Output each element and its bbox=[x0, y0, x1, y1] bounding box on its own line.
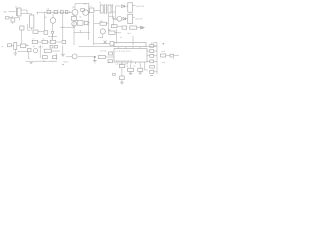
diode D1 bbox=[122, 5, 125, 8]
wire bbox=[154, 71, 157, 73]
right vertical wire bbox=[156, 42, 158, 74]
wire bbox=[113, 18, 117, 20]
svg-text:v+: v+ bbox=[162, 43, 165, 45]
capacitor C5 bbox=[61, 10, 64, 13]
IC pin stubs bottom bbox=[122, 62, 145, 65]
svg-text:comm: comm bbox=[63, 61, 69, 63]
svg-text:tp2: tp2 bbox=[128, 32, 132, 35]
capacitor C21 bbox=[55, 45, 58, 48]
transistor Q6 bbox=[72, 21, 77, 26]
wire bbox=[38, 41, 61, 43]
wire bbox=[115, 6, 117, 18]
svg-text:T1: T1 bbox=[99, 2, 102, 4]
capacitor C10 bbox=[44, 31, 48, 34]
transformer T1 primary bbox=[100, 5, 103, 13]
wire bbox=[121, 80, 123, 82]
wire bbox=[26, 45, 29, 47]
wire bbox=[112, 4, 114, 19]
right pin resistor Rd bbox=[150, 60, 154, 63]
capacitor C18 bbox=[138, 68, 143, 71]
resistor R4 bbox=[111, 25, 117, 28]
resistor R12 bbox=[44, 49, 51, 52]
wire bbox=[93, 14, 95, 45]
wire bbox=[73, 14, 75, 45]
ground bbox=[120, 82, 123, 84]
capacitor C14 bbox=[42, 56, 47, 59]
wire bbox=[62, 14, 64, 28]
resistor R1 bbox=[20, 26, 24, 30]
wire bbox=[147, 50, 157, 52]
svg-text:18 17 16 15 14 13: 18 17 16 15 14 13 bbox=[115, 60, 133, 62]
bottom bus wire bbox=[94, 43, 111, 45]
resistor R8 bbox=[42, 40, 47, 43]
IC U1 bbox=[114, 49, 147, 62]
inductor L3 bbox=[72, 16, 77, 20]
long top wire bbox=[79, 45, 114, 47]
wire bbox=[111, 11, 116, 13]
resistor R13 bbox=[52, 56, 56, 59]
wire bbox=[74, 32, 90, 34]
transformer T1 core bbox=[105, 4, 107, 14]
wire bbox=[94, 23, 108, 25]
svg-text:U1 reg: U1 reg bbox=[100, 50, 107, 53]
wire bbox=[174, 55, 179, 57]
capacitor C11 bbox=[62, 40, 66, 43]
resistor R3 bbox=[100, 22, 107, 25]
svg-text:a: a bbox=[89, 22, 91, 24]
resistor R15 bbox=[161, 54, 166, 57]
svg-text:t3: t3 bbox=[134, 65, 137, 68]
wire bbox=[14, 50, 16, 53]
resistor R2 bbox=[81, 8, 85, 11]
fuse F1 bbox=[30, 15, 34, 28]
wire bbox=[18, 52, 31, 59]
wire stub bbox=[155, 41, 158, 43]
svg-text:vz: vz bbox=[33, 46, 35, 48]
resistor R6 bbox=[109, 31, 115, 34]
resistor R9 bbox=[50, 40, 55, 43]
capacitor C16 bbox=[170, 54, 174, 57]
wire bbox=[62, 45, 64, 53]
resistor R17 bbox=[128, 68, 134, 71]
transistor Q4 bbox=[33, 48, 37, 52]
svg-text:fb: fb bbox=[80, 16, 83, 18]
wire bbox=[121, 68, 123, 76]
wire bbox=[111, 4, 113, 6]
mark bbox=[150, 75, 153, 77]
IC pin stubs top bbox=[119, 47, 140, 49]
wire bbox=[125, 5, 128, 7]
transformer T1 secondary bbox=[108, 5, 111, 13]
wire bbox=[115, 32, 121, 34]
wire bbox=[78, 56, 95, 58]
ground bbox=[14, 53, 18, 55]
switch S1 bbox=[6, 17, 10, 20]
wire bbox=[12, 22, 14, 24]
wire bbox=[56, 53, 58, 60]
capacitor C12 bbox=[84, 21, 88, 25]
diode D7 bbox=[28, 48, 31, 51]
wire bbox=[126, 18, 128, 20]
resistor bank box bbox=[33, 30, 38, 33]
relay RL1 bbox=[128, 3, 133, 12]
junction bbox=[69, 12, 70, 13]
junction bbox=[163, 43, 164, 44]
right pin resistor Ra bbox=[150, 44, 154, 47]
wire bbox=[52, 14, 54, 32]
diode D4 bbox=[51, 32, 54, 35]
svg-text:in: in bbox=[2, 46, 4, 48]
wire bbox=[166, 55, 170, 57]
wire bbox=[94, 58, 96, 61]
ground bbox=[61, 54, 65, 56]
wire bbox=[60, 26, 75, 28]
wire stub bbox=[79, 30, 81, 33]
wire bbox=[51, 50, 60, 52]
wire bbox=[137, 27, 145, 29]
wire bbox=[38, 12, 45, 31]
svg-text:out1 12V: out1 12V bbox=[136, 5, 145, 8]
right pin resistor Rc bbox=[150, 54, 154, 57]
diode D6 bbox=[104, 41, 107, 44]
ground bbox=[93, 61, 97, 63]
capacitor C1 bbox=[11, 18, 15, 22]
svg-text:K1: K1 bbox=[84, 4, 87, 6]
ground left bbox=[30, 62, 33, 63]
wire bbox=[145, 64, 148, 70]
connector J1 bbox=[15, 8, 17, 16]
wire bbox=[154, 45, 157, 47]
wire bbox=[9, 16, 13, 18]
wire bbox=[147, 60, 157, 62]
small mark bbox=[113, 73, 116, 75]
wire bbox=[120, 36, 122, 38]
tick bbox=[62, 63, 64, 65]
svg-text:R3: R3 bbox=[100, 21, 104, 23]
node mark bbox=[28, 30, 31, 32]
junction bbox=[52, 36, 53, 37]
svg-text:k2: k2 bbox=[45, 17, 48, 19]
wire bbox=[11, 44, 14, 46]
wire bbox=[139, 64, 141, 73]
transistor Q3 bbox=[100, 29, 105, 34]
right pin resistor Rb bbox=[150, 50, 154, 53]
wire bbox=[21, 43, 23, 44]
wire bbox=[9, 11, 16, 13]
svg-text:adj: adj bbox=[162, 62, 165, 64]
svg-text:vref: vref bbox=[162, 50, 166, 53]
resistor R5 bbox=[130, 26, 137, 29]
junction bbox=[62, 27, 63, 28]
inductor L2 bbox=[89, 8, 94, 13]
wire bbox=[62, 27, 64, 40]
diode D3 bbox=[141, 26, 144, 29]
wire bbox=[88, 4, 90, 40]
right pin resistor Rf bbox=[150, 70, 154, 73]
meter M1 bbox=[117, 16, 122, 21]
wire bbox=[31, 14, 33, 15]
ground bbox=[129, 73, 132, 74]
transistor Q2 bbox=[83, 10, 89, 16]
wire bbox=[116, 29, 118, 44]
resistor R14 bbox=[98, 55, 105, 58]
relay RL2 bbox=[128, 14, 133, 23]
capacitor C19 bbox=[108, 60, 113, 63]
capacitor C15 bbox=[108, 52, 112, 55]
tick bbox=[50, 60, 54, 62]
svg-text:c9: c9 bbox=[126, 66, 129, 68]
bottom-left bus wire bbox=[26, 60, 58, 62]
capacitor C3 bbox=[47, 10, 51, 13]
wire bbox=[105, 56, 114, 58]
svg-text:Q4 tr: Q4 tr bbox=[39, 46, 44, 49]
diode D5 bbox=[8, 44, 12, 47]
ground bbox=[139, 73, 142, 74]
svg-text:o: o bbox=[173, 58, 175, 60]
wire bbox=[27, 24, 29, 30]
svg-text:1 2 3 4 5 6 7 8 9: 1 2 3 4 5 6 7 8 9 bbox=[115, 51, 131, 53]
resistor R10 bbox=[77, 21, 83, 26]
wire bbox=[21, 30, 23, 43]
wire bbox=[117, 25, 122, 27]
wire bbox=[31, 28, 33, 31]
top bus wire bbox=[37, 11, 73, 13]
bus wire bbox=[146, 46, 157, 48]
wire bbox=[107, 14, 109, 31]
svg-text:out2 5V: out2 5V bbox=[135, 17, 143, 20]
wire bbox=[17, 44, 21, 46]
svg-text:~230: ~230 bbox=[2, 12, 8, 14]
wire bbox=[113, 18, 117, 20]
diode D2 bbox=[123, 17, 126, 20]
wire bbox=[147, 55, 157, 57]
resistor R11 bbox=[20, 44, 25, 47]
capacitor C20 bbox=[50, 45, 53, 48]
below IC: resistor R16 bbox=[119, 65, 124, 68]
top rail wire bbox=[75, 4, 90, 10]
wire bbox=[21, 10, 27, 14]
wire bbox=[66, 56, 72, 58]
resistor R7 bbox=[32, 40, 37, 43]
junction bbox=[43, 61, 44, 62]
wire bbox=[48, 35, 57, 40]
capacitor C17 bbox=[120, 76, 125, 80]
wire bbox=[116, 5, 121, 7]
wire bbox=[39, 45, 41, 58]
capacitor C6 bbox=[65, 10, 68, 13]
capacitor C8 bbox=[122, 26, 127, 29]
wire bbox=[133, 4, 136, 6]
wire bbox=[132, 36, 134, 45]
right pin capacitor Ce bbox=[150, 65, 155, 68]
junction blob bbox=[94, 56, 96, 58]
wire bbox=[130, 64, 132, 73]
transistor Q5 bbox=[50, 18, 56, 24]
resistor network RN1 bbox=[114, 42, 146, 46]
wire bbox=[98, 34, 103, 38]
wire bbox=[133, 17, 135, 19]
capacitor C4 bbox=[54, 10, 58, 13]
wire bbox=[94, 9, 100, 11]
transistor Q1 bbox=[72, 9, 78, 15]
capacitor C9 bbox=[110, 42, 114, 46]
capacitor C13 bbox=[14, 43, 17, 50]
wire bbox=[15, 18, 20, 21]
wire stub bbox=[36, 12, 38, 14]
wire bbox=[109, 16, 113, 26]
wire bbox=[21, 13, 32, 15]
lamp LA1 bbox=[72, 54, 77, 59]
